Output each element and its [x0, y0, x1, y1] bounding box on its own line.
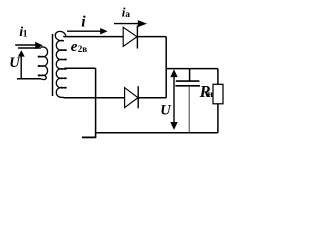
- svg-text:e: e: [71, 39, 78, 55]
- svg-text:a: a: [125, 10, 130, 20]
- svg-text:2в: 2в: [78, 44, 88, 54]
- svg-text:1: 1: [23, 30, 28, 40]
- svg-text:н: н: [208, 90, 214, 100]
- svg-text:U: U: [160, 103, 172, 119]
- svg-text:U: U: [9, 55, 21, 71]
- svg-text:i: i: [81, 14, 86, 31]
